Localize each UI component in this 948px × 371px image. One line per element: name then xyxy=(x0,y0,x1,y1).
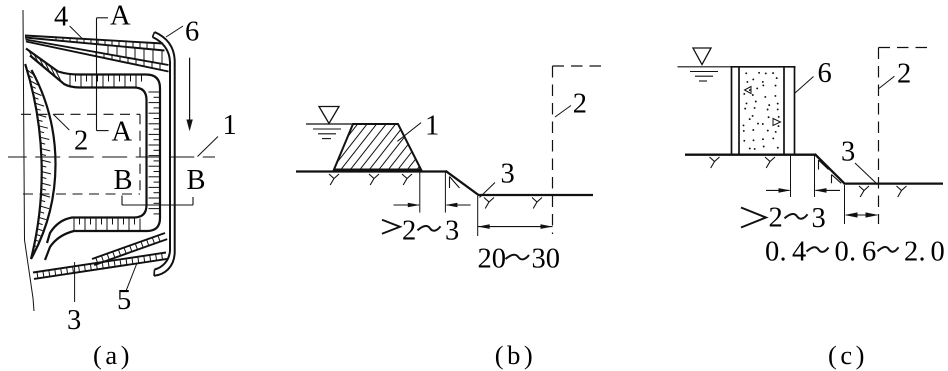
svg-text:B: B xyxy=(114,165,133,196)
svg-text:0: 0 xyxy=(931,237,945,268)
fig-a leader for label 6 xyxy=(166,26,183,37)
svg-text:A: A xyxy=(112,117,133,148)
fig-a dashed dam outline bottom edge xyxy=(23,193,140,195)
svg-text:(c): (c) xyxy=(828,340,868,370)
fig-a flow direction arrow xyxy=(186,58,192,132)
fig-b lower ground line xyxy=(478,194,594,196)
svg-text:1: 1 xyxy=(223,110,237,141)
fig-a section line B-B xyxy=(122,196,193,206)
svg-text:(b): (b) xyxy=(495,340,536,370)
fig-c dimension arrows for >2~3 xyxy=(766,188,840,193)
fig-c dimension text >2~3 xyxy=(741,203,826,235)
svg-text:20: 20 xyxy=(478,244,507,275)
fig-c leader for label 2 xyxy=(879,76,894,88)
svg-text:2: 2 xyxy=(573,89,587,120)
fig-b dimension arrows for 20~30 xyxy=(478,224,553,229)
svg-text:3: 3 xyxy=(812,203,826,234)
fig-a embankment ring inner boundary xyxy=(30,56,147,244)
fig-a leader for label 3 xyxy=(74,262,76,302)
fig-b water level symbol xyxy=(306,107,353,139)
svg-text:6: 6 xyxy=(185,17,199,48)
fig-a sloped embankment fan (element 4) xyxy=(25,36,169,72)
svg-text:0: 0 xyxy=(835,237,849,268)
fig-b extension line left xyxy=(419,172,421,213)
svg-text:2: 2 xyxy=(402,215,416,246)
svg-text:2: 2 xyxy=(769,203,783,234)
fig-a section line A-A xyxy=(97,18,109,131)
fig-b extension line lower xyxy=(477,196,479,236)
fig-a outer sheet (element 6) xyxy=(153,32,175,276)
fig-c water level symbol xyxy=(678,48,732,81)
fig-c ground soil marks xyxy=(710,157,907,197)
fig-c extension line right xyxy=(814,155,816,197)
fig-b upper ground line xyxy=(296,170,447,172)
fig-c excavation slope xyxy=(815,154,845,184)
fig-a dashed dam outline top edge xyxy=(21,113,140,115)
fig-c lower ground line xyxy=(844,182,943,184)
fig-c dimension text 0.4~0.6~2.0 xyxy=(765,237,945,268)
fig-b earth cofferdam (element 1) with hatching xyxy=(334,124,421,170)
svg-text:3: 3 xyxy=(67,305,81,336)
fig-a leader for label 1 xyxy=(198,137,219,157)
fig-b extension line right xyxy=(444,172,446,213)
fig-b dashed river closure line (element 2) xyxy=(553,66,602,234)
fig-c slope symbol upper xyxy=(819,160,829,170)
svg-text:.: . xyxy=(780,237,787,268)
fig-a leader for label 2 xyxy=(53,114,69,130)
fig-b leader for label 1 xyxy=(397,123,421,142)
fig-b dimension text 20~30 xyxy=(478,244,561,275)
fig-c dashed river closure line (element 2) xyxy=(879,48,928,225)
svg-text:(a): (a) xyxy=(93,340,133,370)
svg-text:2: 2 xyxy=(74,126,88,157)
svg-text:6: 6 xyxy=(862,237,876,268)
svg-text:0: 0 xyxy=(765,237,779,268)
fig-c extension line lower xyxy=(844,185,846,224)
svg-text:3: 3 xyxy=(841,137,855,168)
fig-b ground soil marks xyxy=(329,174,542,209)
svg-text:30: 30 xyxy=(532,244,561,275)
fig-a leader for label 4 xyxy=(70,26,83,39)
fig-a embankment ring outer boundary xyxy=(26,49,160,261)
svg-text:B: B xyxy=(187,165,206,196)
fig-b excavation slope xyxy=(446,171,479,195)
fig-b leader for label 3 xyxy=(480,183,496,198)
fig-b slope symbol xyxy=(450,177,460,189)
fig-c extension line left xyxy=(790,155,792,197)
svg-text:3: 3 xyxy=(501,158,515,189)
fig-c concrete cofferdam wall (element 6) xyxy=(731,67,796,155)
svg-text:5: 5 xyxy=(117,285,131,316)
svg-text:.: . xyxy=(919,237,926,268)
fig-a centerline xyxy=(8,156,215,158)
svg-text:4: 4 xyxy=(792,237,806,268)
fig-b dimension arrows for >2~3 xyxy=(394,203,471,208)
fig-a dashed dam outline right edge xyxy=(139,114,141,194)
fig-c leader for label 3 xyxy=(855,163,876,183)
svg-text:6: 6 xyxy=(818,58,832,89)
svg-text:2: 2 xyxy=(904,237,918,268)
svg-text:2: 2 xyxy=(897,58,911,89)
fig-c dimension double arrow 0.4~0.6 xyxy=(845,212,879,217)
svg-text:4: 4 xyxy=(54,2,68,33)
fig-a ring ruler tick hatching xyxy=(29,50,159,230)
svg-text:3: 3 xyxy=(445,215,459,246)
fig-c leader for label 6 xyxy=(795,77,814,94)
fig-c slope symbol lower xyxy=(832,175,842,184)
fig-a left curved earth band (element 2) xyxy=(25,64,55,259)
fig-b dimension text >2~3 xyxy=(382,215,459,246)
fig-a left boundary line xyxy=(23,10,34,311)
svg-text:1: 1 xyxy=(425,111,439,142)
svg-text:.: . xyxy=(849,237,856,268)
svg-text:A: A xyxy=(110,0,131,31)
fig-b leader for label 2 xyxy=(555,106,571,118)
fig-a bottom berm strips (elements 3 and 5) xyxy=(33,233,167,279)
fig-a leader for label 5 xyxy=(126,263,137,291)
fig-c upper ground line xyxy=(685,154,816,156)
